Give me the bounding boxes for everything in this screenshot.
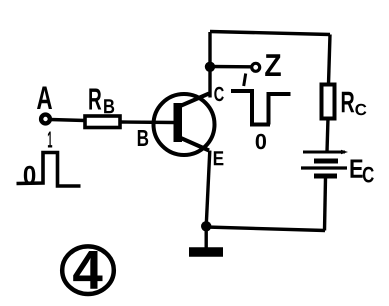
wire top rail [210,32,330,35]
resistor RC [322,85,335,119]
transistor Q1 collector stroke [179,94,209,107]
wire junction to ground [204,226,207,249]
input pulse waveform [17,153,81,187]
battery EC plate long top [303,151,345,154]
battery EC plate short upper [314,159,338,164]
transistor Q1 base bar [174,103,183,142]
resistor RB [85,116,120,128]
node Z label [265,54,281,76]
transistor Q1 emitter stroke [179,137,210,151]
output logic 1 tick [244,74,246,87]
figure number circle [62,246,114,294]
wire emitter drop [206,151,210,227]
input logic 1 label [48,132,52,148]
figure number 4 [73,251,102,289]
battery EC label E [351,160,363,178]
output logic 0 label [256,134,266,149]
wire collector riser [208,32,211,98]
battery EC plate short lower [314,174,337,179]
pin label E [214,151,224,165]
wire right rail [329,35,331,85]
wire A to RB [50,120,85,121]
transistor Q1 circle [154,94,215,155]
resistor RC label R [342,92,355,112]
wire battery to bottom rail [325,178,326,231]
input logic 0 label [24,166,36,185]
node A terminal [41,115,50,124]
wire junction to Z terminal [210,65,251,69]
output inverted pulse waveform [231,91,291,125]
battery EC label subscript C [363,167,374,183]
resistor RB label R [89,89,101,110]
wire RC to battery [327,118,328,152]
node junction at collector [205,62,215,72]
wire bottom rail [206,227,325,231]
node Z terminal [252,63,260,71]
battery EC plate long middle [301,166,347,169]
ground [189,247,223,257]
resistor RB label subscript B [104,99,114,113]
node junction at emitter [201,221,211,231]
wire RB to base [120,120,174,124]
pin label C [214,87,224,101]
battery EC arrow tip [341,150,348,154]
resistor RC label subscript C [355,104,366,115]
pin label B [138,130,148,146]
node A label [37,87,52,110]
